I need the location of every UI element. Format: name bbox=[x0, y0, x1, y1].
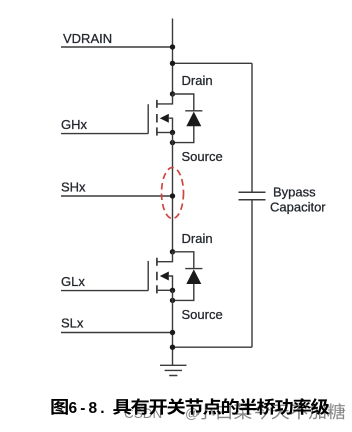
transistor Q1 high-side MOSFET bbox=[148, 91, 175, 135]
transistor Q2 low-side MOSFET bbox=[148, 249, 175, 293]
wire: branch to bypass capacitor (bottom) bbox=[173, 346, 253, 348]
node highlight: dashed red ellipse around switch node bbox=[162, 168, 184, 219]
node: low-side source / diode anode junction dot bbox=[170, 298, 175, 303]
node: SHx switch-node junction dot bbox=[170, 193, 175, 198]
wire: lower rail to ground bbox=[172, 290, 174, 365]
svg-text:SHx: SHx bbox=[61, 180, 86, 195]
node: ground branch junction dot bbox=[170, 345, 175, 350]
caption: 图 6-8. 具有开关节点的半桥功率级 bbox=[51, 398, 329, 417]
wire: SHx lead bbox=[61, 195, 173, 197]
ground bbox=[160, 365, 187, 375]
wire: mid rail (switch node) bbox=[172, 133, 174, 252]
wire: VDRAIN horizontal lead bbox=[61, 46, 173, 48]
wire: GLx gate lead bbox=[61, 290, 148, 292]
svg-text:Source: Source bbox=[182, 149, 223, 164]
wire: SLx lead bbox=[61, 332, 173, 334]
svg-text:GLx: GLx bbox=[61, 274, 85, 289]
svg-text:SLx: SLx bbox=[61, 316, 84, 331]
svg-text:Drain: Drain bbox=[182, 73, 213, 88]
node: SLx junction dot bbox=[170, 330, 175, 335]
wire: GHx gate lead bbox=[61, 133, 148, 135]
node: VDRAIN junction dot bbox=[170, 44, 175, 49]
svg-text:Drain: Drain bbox=[182, 231, 213, 246]
svg-text:Source: Source bbox=[182, 307, 223, 322]
node: bypass branch junction dot bbox=[170, 61, 175, 66]
svg-text:Capacitor: Capacitor bbox=[270, 200, 326, 215]
wire: main vertical rail top stub bbox=[172, 19, 174, 95]
capacitor C1 bypass capacitor bbox=[239, 63, 266, 347]
wire: branch to bypass capacitor (top) bbox=[173, 62, 253, 64]
svg-text:VDRAIN: VDRAIN bbox=[63, 31, 112, 46]
svg-text:Bypass: Bypass bbox=[273, 185, 316, 200]
node: high-side source / diode anode junction dot bbox=[170, 140, 175, 145]
diode D1 high-side body diode bbox=[173, 94, 203, 143]
watermark CSDN gray text bbox=[124, 403, 345, 421]
svg-text:GHx: GHx bbox=[61, 117, 88, 132]
diode D2 low-side body diode bbox=[173, 252, 203, 301]
